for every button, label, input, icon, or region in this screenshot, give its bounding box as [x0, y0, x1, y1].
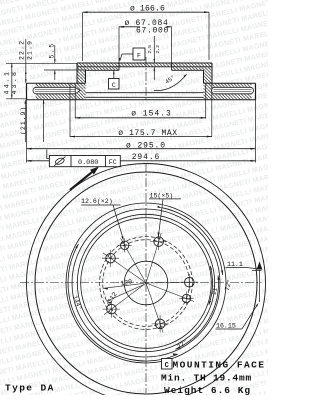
- svg-text:0.080: 0.080: [78, 159, 98, 167]
- svg-text:11.1: 11.1: [227, 261, 243, 268]
- svg-text:F: F: [137, 53, 141, 60]
- svg-text:21.9: 21.9: [27, 40, 34, 60]
- svg-text:2.2: 2.2: [155, 45, 161, 54]
- svg-text:2.5: 2.5: [147, 45, 153, 54]
- svg-text:22.2: 22.2: [19, 40, 26, 60]
- svg-text:Weight 6.6 Kg: Weight 6.6 Kg: [164, 385, 251, 395]
- svg-text:Type DA: Type DA: [5, 383, 55, 394]
- svg-text:(21.9): (21.9): [20, 106, 27, 135]
- svg-text:44.1: 44.1: [3, 70, 10, 95]
- svg-text:5.5: 5.5: [48, 42, 55, 58]
- svg-text:C: C: [112, 82, 116, 89]
- svg-text:FC: FC: [109, 159, 117, 167]
- svg-text:16.15: 16.15: [216, 322, 236, 329]
- svg-text:67.000: 67.000: [136, 26, 169, 35]
- svg-text:ø 154.3: ø 154.3: [131, 110, 172, 119]
- svg-text:Min. TH 19.4mm: Min. TH 19.4mm: [161, 373, 252, 384]
- svg-text:12.6(×2): 12.6(×2): [81, 198, 113, 205]
- svg-text:MOUNTING FACE: MOUNTING FACE: [173, 359, 266, 370]
- svg-text:C: C: [165, 362, 169, 370]
- svg-text:15(×5): 15(×5): [150, 192, 174, 199]
